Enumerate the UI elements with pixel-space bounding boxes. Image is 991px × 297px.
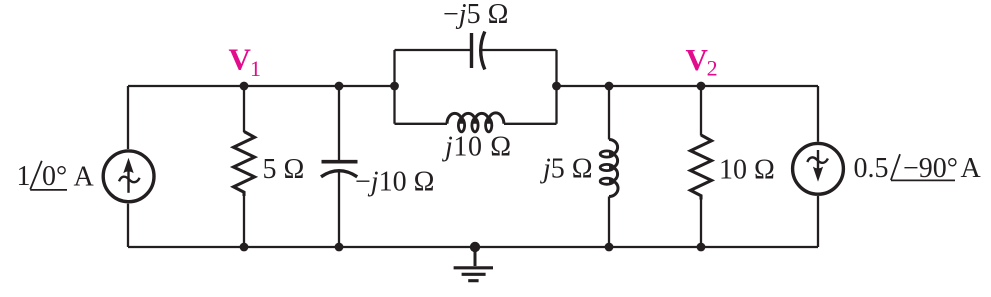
wire top branch left <box>395 49 471 51</box>
node dot box left <box>390 82 399 91</box>
current source I1 circle <box>103 151 154 202</box>
wire 5-ohm bottom lead <box>243 196 245 247</box>
current source I2 circle <box>793 143 844 194</box>
node dot 10ohm bottom <box>697 243 706 252</box>
wire 10-ohm top lead <box>700 86 702 136</box>
svg-text:V: V <box>686 42 709 77</box>
svg-text:0.5: 0.5 <box>854 153 889 184</box>
svg-text:0°: 0° <box>42 161 67 192</box>
wire left vertical below source <box>127 204 129 247</box>
wire right vertical above source <box>817 86 819 142</box>
node dot cap bottom <box>335 243 344 252</box>
inductor L j10 loops <box>458 119 464 132</box>
inductor L j5 loops <box>600 151 613 157</box>
node dot V1 top <box>240 82 249 91</box>
svg-text:1: 1 <box>250 56 261 81</box>
svg-text:5 Ω: 5 Ω <box>263 154 305 185</box>
resistor R 10ohm zigzag <box>691 135 712 200</box>
wire bottom branch right <box>504 123 557 125</box>
svg-text:1: 1 <box>17 161 31 192</box>
capacitor C -j10 straight plate <box>322 160 358 164</box>
wire right vertical below source <box>817 196 819 247</box>
node dot V2 top <box>697 82 706 91</box>
label source I1 angle slash <box>30 161 42 190</box>
wire j5 top lead <box>608 86 610 140</box>
label source I1 angle underline <box>30 189 67 191</box>
current source I1 arrowhead <box>123 158 133 173</box>
wire box right vertical <box>555 50 557 124</box>
capacitor C -j10 curved plate <box>321 171 357 177</box>
ground symbol <box>454 268 493 281</box>
current source I2 arrowhead <box>813 167 823 182</box>
wire top right: box right to right edge <box>557 85 819 87</box>
svg-text:A: A <box>74 161 95 192</box>
wire left vertical above source <box>127 86 129 149</box>
svg-text:j10 Ω: j10 Ω <box>442 132 512 163</box>
current source I2 arrow <box>807 150 828 175</box>
svg-text:−j5 Ω: −j5 Ω <box>443 0 508 30</box>
capacitor C -j5 curved plate <box>481 32 485 70</box>
wire bottom branch left <box>395 123 448 125</box>
svg-text:10 Ω: 10 Ω <box>719 154 775 185</box>
wire bottom rail <box>128 246 818 248</box>
wire j5 bottom lead <box>608 197 610 248</box>
svg-text:−j10 Ω: −j10 Ω <box>355 167 434 198</box>
wire box left vertical <box>393 50 395 124</box>
wire top branch right <box>481 49 557 51</box>
node dot box right <box>552 82 561 91</box>
svg-text:V: V <box>229 42 252 77</box>
capacitor C -j5 straight plate <box>470 33 473 68</box>
svg-text:2: 2 <box>707 56 718 81</box>
label source I2 angle underline <box>891 179 955 181</box>
wire 10-ohm bottom lead <box>700 198 702 247</box>
node dot j5 bottom <box>605 243 614 252</box>
node dot 5ohm bottom <box>240 243 249 252</box>
wire cap -j10 top lead <box>338 86 340 163</box>
node dot cap top <box>335 82 344 91</box>
wire cap -j10 bottom lead <box>338 171 340 247</box>
node dot ground <box>470 242 480 252</box>
current source I1 arrow <box>119 167 140 193</box>
inductor L j10 humps <box>447 113 504 124</box>
wire 5-ohm top lead <box>243 86 245 132</box>
node dot j5 top <box>605 82 614 91</box>
svg-text:A: A <box>961 153 982 184</box>
inductor L j5 humps <box>609 140 618 197</box>
resistor R 5ohm zigzag <box>234 132 255 197</box>
svg-text:j5 Ω: j5 Ω <box>540 154 593 185</box>
label source I2 angle slash <box>891 154 900 180</box>
wire top left: left edge to box left <box>128 85 395 87</box>
wire ground stub <box>474 247 477 266</box>
